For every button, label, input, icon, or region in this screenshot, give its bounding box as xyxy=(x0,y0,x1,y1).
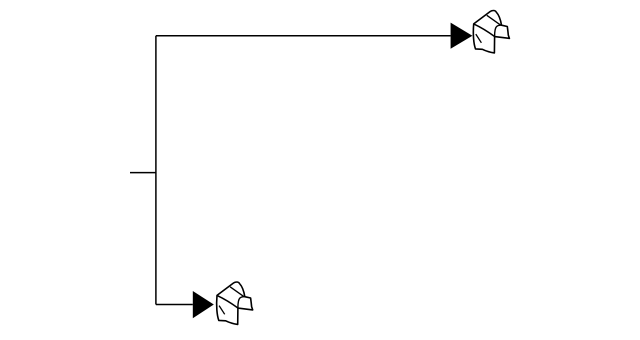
clip icon (top) xyxy=(473,11,509,53)
arrow (top) xyxy=(451,23,473,49)
wire: top horizontal leader xyxy=(156,35,451,37)
clip icon (bottom) xyxy=(217,282,253,324)
wire: bottom horizontal leader xyxy=(156,304,193,306)
arrow (bottom) xyxy=(193,291,214,318)
wire: vertical leader line xyxy=(155,36,157,305)
tick: mid branch stub xyxy=(130,172,156,174)
